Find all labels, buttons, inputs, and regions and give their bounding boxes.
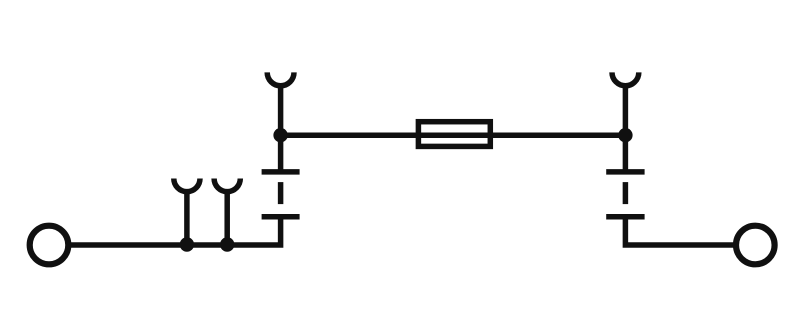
clamp contact 2 (plug-in socket fork) xyxy=(214,179,240,192)
terminal X2 (right screw connection circle) xyxy=(736,226,775,265)
clamp contact 1 (plug-in socket fork) xyxy=(174,179,200,192)
disconnect zone left: upper contact bar xyxy=(262,169,300,175)
fuse holder contact right (fork) xyxy=(612,72,639,85)
wire (upper stem of left disconnect to node C) xyxy=(278,135,284,172)
wire (stem of clamp contact 2) xyxy=(224,191,230,245)
disconnect zone left: middle isolating piece xyxy=(278,182,284,204)
disconnect zone left: lower contact bar xyxy=(262,214,300,220)
disconnect zone right: upper contact bar xyxy=(606,169,644,175)
node C (junction dot, upper-left) xyxy=(273,128,287,142)
node A (junction dot on lower wire, left clamp 1) xyxy=(180,237,194,251)
fuse F1 (IEC fuse rectangle) xyxy=(418,122,490,147)
node B (junction dot on lower wire, left clamp 2) xyxy=(220,237,234,251)
terminal X1 (left screw connection circle) xyxy=(30,226,69,265)
wire (right disconnect down and across to right terminal) xyxy=(625,217,736,245)
wire (left terminal to left disconnect, with corner up to lower contact bar) xyxy=(69,217,281,245)
fuse holder contact left (fork) xyxy=(267,72,294,85)
wire (top wire from node C to node D through fuse) xyxy=(281,132,626,138)
node D (junction dot, upper-right) xyxy=(618,128,632,142)
wire (stem of upper-right fuse holder contact) xyxy=(623,85,629,135)
disconnect zone right: lower contact bar xyxy=(606,214,644,220)
wire (stem of upper-left fuse holder contact) xyxy=(278,85,284,135)
wire (stem of clamp contact 1) xyxy=(184,191,190,245)
disconnect zone right: middle isolating piece xyxy=(623,182,629,204)
wire (upper stem of right disconnect to node D) xyxy=(623,135,629,172)
